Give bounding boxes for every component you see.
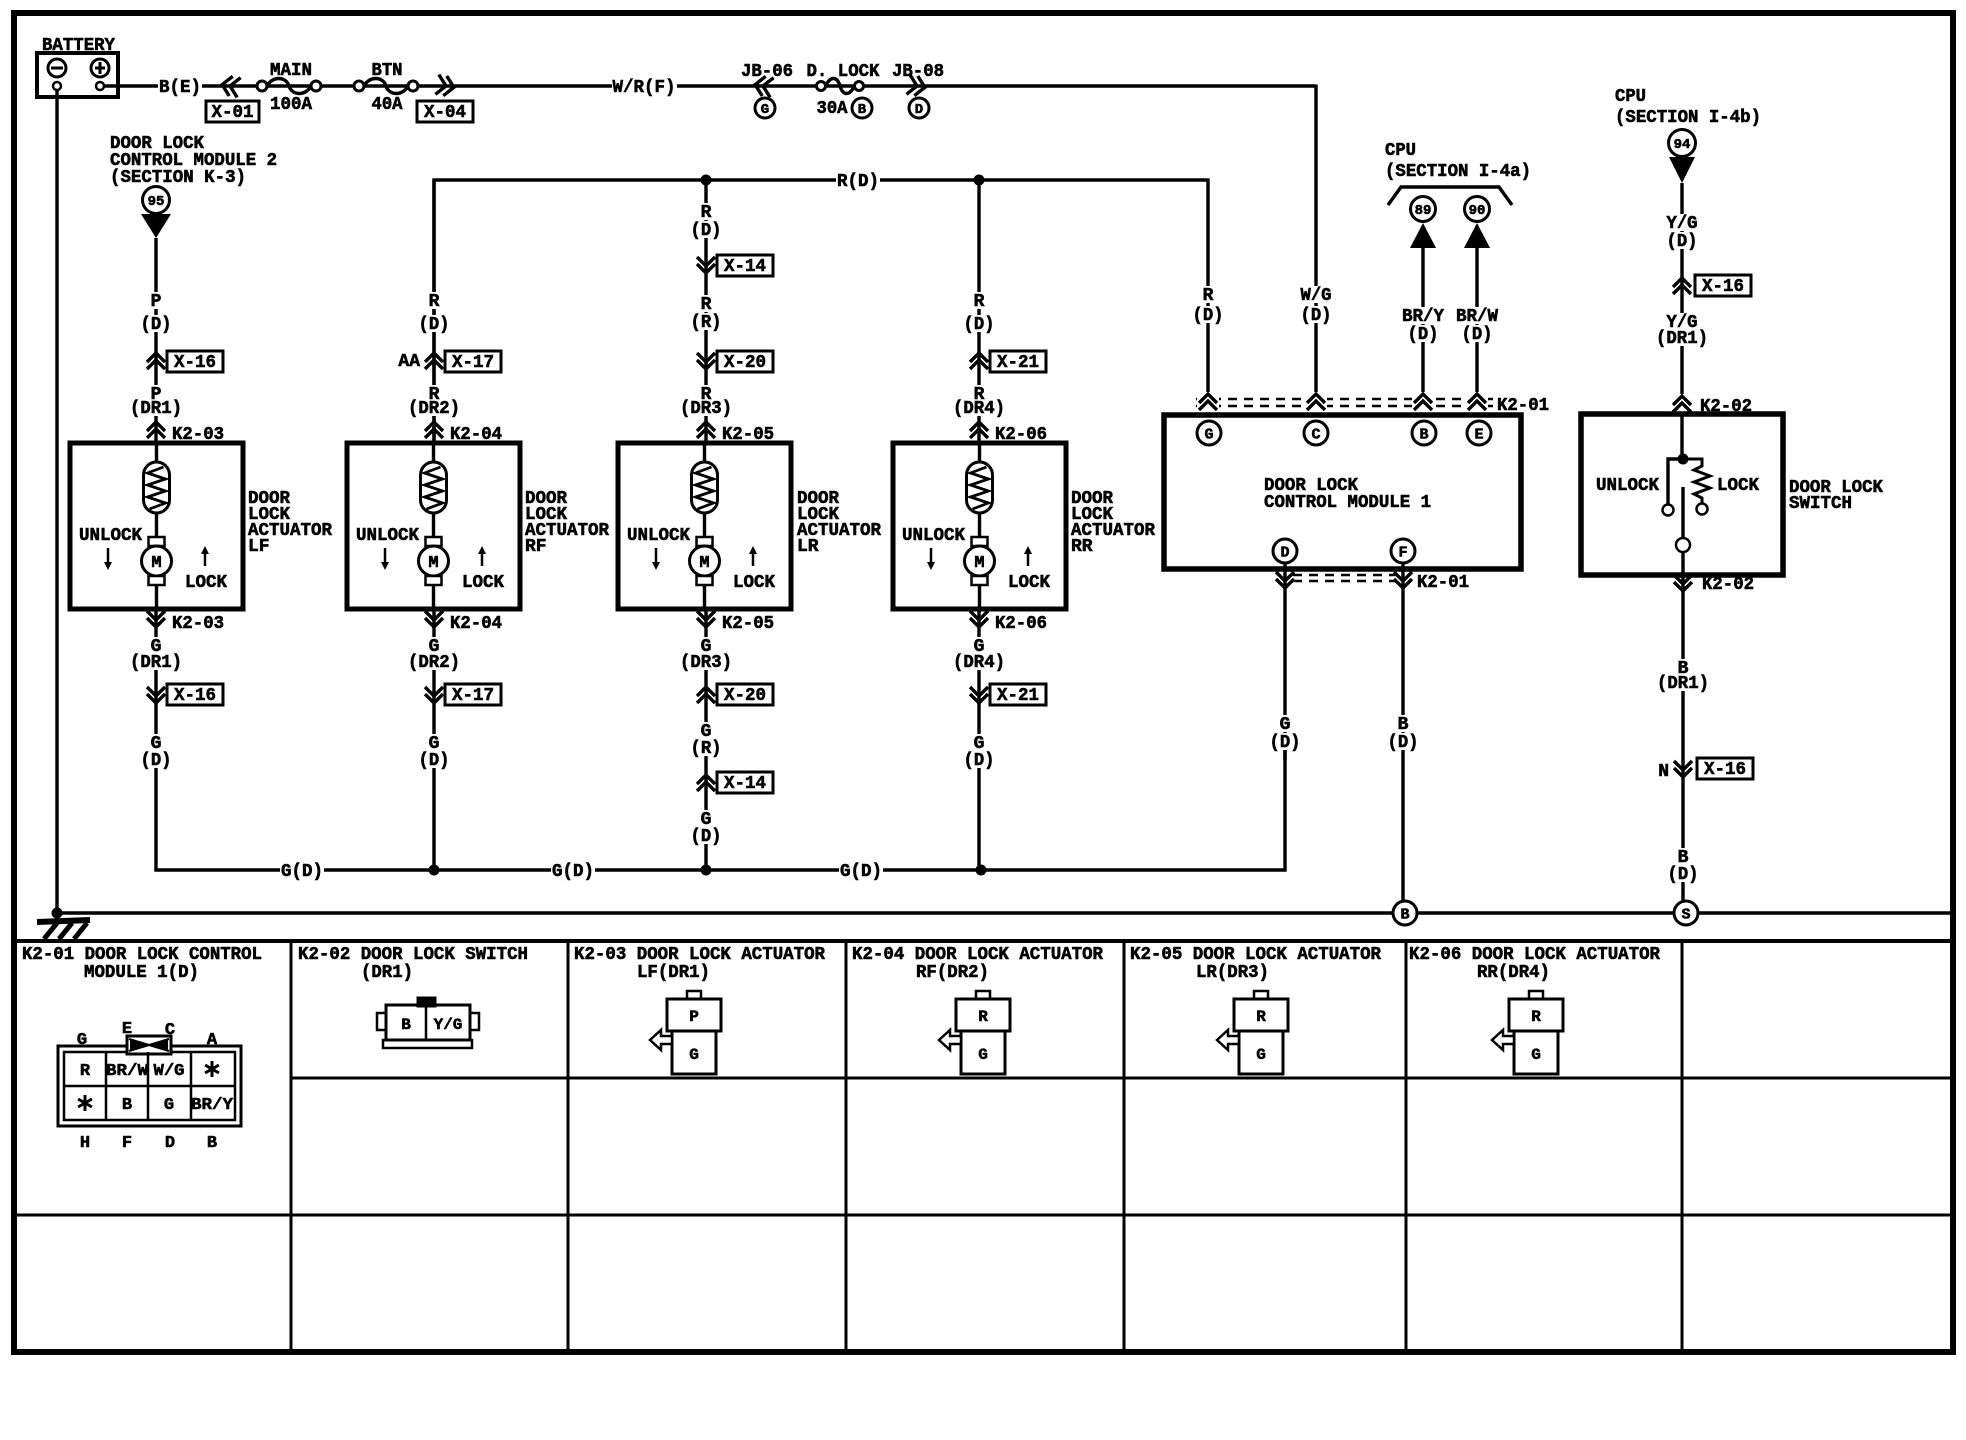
svg-text:X-21: X-21 [997, 686, 1039, 706]
connector K2-05 pinout glyph [1217, 991, 1288, 1074]
fuse D.LOCK 30A pin B [807, 62, 880, 119]
svg-text:LR: LR [797, 537, 819, 557]
svg-text:R: R [978, 1008, 988, 1026]
door lock switch [1581, 414, 1783, 575]
svg-text:(D): (D) [141, 315, 172, 335]
svg-text:P: P [689, 1008, 699, 1026]
svg-text:30A: 30A [817, 99, 848, 119]
svg-text:UNLOCK: UNLOCK [627, 526, 690, 546]
svg-text:X-21: X-21 [997, 353, 1039, 373]
svg-text:K2-02 DOOR LOCK SWITCH: K2-02 DOOR LOCK SWITCH [298, 945, 528, 965]
svg-text:D: D [915, 102, 923, 118]
svg-text:B(E): B(E) [159, 78, 201, 98]
door lock actuator RR [893, 443, 1066, 609]
svg-text:B: B [207, 1134, 217, 1153]
svg-text:P: P [151, 292, 162, 312]
svg-text:G: G [978, 1046, 988, 1064]
svg-text:RR: RR [1071, 537, 1093, 557]
door lock actuator LF [70, 443, 243, 609]
wire R(D)/R(R)/R(DR3) to actuator LR [679, 180, 774, 445]
svg-text:SWITCH: SWITCH [1789, 494, 1852, 514]
svg-text:CPU: CPU [1615, 87, 1646, 107]
svg-text:(DR4): (DR4) [953, 653, 1005, 673]
wire G (D) module 1 pin D [1268, 563, 1301, 760]
svg-text:X-17: X-17 [452, 353, 494, 373]
svg-text:X-16: X-16 [1702, 277, 1744, 297]
wire BR/Y (D) to module 1 pin B [1401, 246, 1445, 421]
svg-text:R(D): R(D) [837, 172, 879, 192]
svg-text:B: B [1400, 906, 1409, 923]
svg-text:MAIN: MAIN [270, 61, 312, 81]
wire G(DR3)/G(R)/G(D) actuator LR to ground bus [679, 609, 774, 870]
svg-text:X-16: X-16 [174, 353, 216, 373]
wire B (DR1)/B (D) switch to ground bus [1656, 575, 1753, 901]
wire P(D)/P(DR1) module2 to actuator LF [129, 238, 224, 445]
svg-text:C: C [1311, 426, 1320, 443]
svg-text:H: H [80, 1134, 90, 1153]
svg-text:W/R(F): W/R(F) [613, 78, 676, 98]
wire BR/W (D) to module 1 pin E [1455, 246, 1499, 421]
svg-text:G(D): G(D) [840, 862, 882, 882]
svg-text:(DR1): (DR1) [361, 963, 413, 983]
svg-text:D: D [165, 1134, 175, 1153]
svg-text:95: 95 [148, 194, 165, 210]
svg-text:G: G [1204, 426, 1213, 443]
svg-text:100A: 100A [270, 95, 312, 115]
svg-text:S: S [1681, 906, 1690, 923]
svg-text:90: 90 [1469, 203, 1486, 219]
svg-text:K2-04: K2-04 [450, 614, 502, 634]
connector table grid [14, 941, 1953, 1352]
svg-text:G: G [1256, 1046, 1266, 1064]
svg-text:K2-03: K2-03 [172, 614, 224, 634]
svg-text:X-14: X-14 [724, 257, 766, 277]
svg-text:R: R [429, 292, 440, 312]
svg-text:G: G [689, 1046, 699, 1064]
battery [37, 36, 118, 97]
svg-text:(D): (D) [1668, 865, 1699, 885]
svg-text:BTN: BTN [372, 61, 403, 81]
svg-text:94: 94 [1674, 137, 1691, 153]
svg-text:LF(DR1): LF(DR1) [637, 963, 710, 983]
svg-text:F: F [1398, 544, 1407, 561]
svg-text:LR(DR3): LR(DR3) [1196, 963, 1269, 983]
wire B(E) [104, 78, 1316, 98]
svg-text:K2-04 DOOR LOCK ACTUATOR: K2-04 DOOR LOCK ACTUATOR [852, 945, 1103, 965]
svg-text:BR/Y: BR/Y [1402, 307, 1444, 327]
svg-text:X-20: X-20 [724, 686, 766, 706]
connector K2-03 pinout glyph [650, 991, 721, 1074]
svg-text:(DR1): (DR1) [130, 653, 182, 673]
svg-text:W/G: W/G [154, 1062, 185, 1081]
label door lock actuator RR [1071, 489, 1155, 557]
svg-text:(SECTION I-4b): (SECTION I-4b) [1615, 108, 1761, 128]
svg-text:89: 89 [1415, 203, 1432, 219]
svg-text:N: N [1658, 762, 1669, 782]
svg-text:X-17: X-17 [452, 686, 494, 706]
svg-text:(D): (D) [141, 751, 172, 771]
svg-text:(D): (D) [419, 751, 450, 771]
svg-text:R: R [1203, 286, 1214, 306]
svg-text:LOCK: LOCK [1008, 573, 1050, 593]
svg-text:X-16: X-16 [1704, 760, 1746, 780]
svg-text:40A: 40A [372, 95, 403, 115]
svg-text:G: G [1280, 715, 1291, 735]
svg-text:G: G [77, 1031, 87, 1050]
wire G(DR1)/G(D) actuator LF to ground bus [129, 609, 224, 870]
svg-text:(R): (R) [691, 313, 722, 333]
connector K2-01 top [1196, 392, 1549, 416]
svg-text:(D): (D) [1193, 306, 1224, 326]
svg-text:Y/G: Y/G [434, 1016, 463, 1034]
svg-text:RF(DR2): RF(DR2) [916, 963, 989, 983]
svg-text:(DR1): (DR1) [1657, 674, 1709, 694]
wire Y/G (D)/(DR1) CPU to door lock switch [1655, 183, 1751, 456]
svg-text:(DR2): (DR2) [408, 653, 460, 673]
svg-text:UNLOCK: UNLOCK [902, 526, 965, 546]
svg-text:CONTROL MODULE 1: CONTROL MODULE 1 [1264, 493, 1431, 513]
wire G(DR2)/G(D) actuator RF to ground bus [407, 609, 502, 870]
svg-text:(D): (D) [419, 315, 450, 335]
label door lock actuator RF [525, 489, 609, 557]
svg-text:LOCK: LOCK [185, 573, 227, 593]
svg-text:UNLOCK: UNLOCK [1596, 476, 1659, 496]
svg-text:K2-01 DOOR LOCK CONTROL: K2-01 DOOR LOCK CONTROL [22, 945, 262, 965]
svg-text:BR/W: BR/W [106, 1062, 149, 1081]
svg-text:AA: AA [398, 352, 420, 372]
svg-text:X-01: X-01 [212, 103, 254, 123]
svg-text:(D): (D) [691, 221, 722, 241]
svg-text:CPU: CPU [1385, 141, 1416, 161]
svg-text:MODULE 1(D): MODULE 1(D) [84, 963, 199, 983]
ground bus [52, 901, 1951, 925]
door lock control module 2 source arrow 95 [110, 134, 277, 238]
svg-text:(DR1): (DR1) [130, 399, 182, 419]
svg-text:D. LOCK: D. LOCK [807, 62, 880, 82]
svg-text:(D): (D) [1408, 325, 1439, 345]
svg-text:R: R [1531, 1008, 1541, 1026]
wire G(DR4)/G(D) actuator RR to ground bus [952, 609, 1047, 870]
svg-text:B: B [1419, 426, 1428, 443]
label door lock switch [1789, 478, 1883, 514]
door lock actuator RF [347, 443, 520, 609]
table headers [22, 945, 1660, 983]
svg-text:X-14: X-14 [724, 774, 766, 794]
label door lock actuator LF [248, 489, 332, 557]
junction block JB-08 pin D [892, 62, 944, 118]
svg-text:G: G [164, 1096, 174, 1115]
door lock control module 1 [1164, 415, 1521, 569]
svg-text:BR/W: BR/W [1456, 307, 1498, 327]
connector K2-01 bottom [1276, 572, 1469, 593]
svg-text:F: F [122, 1134, 132, 1153]
svg-text:B: B [858, 102, 867, 118]
svg-text:(DR2): (DR2) [408, 399, 460, 419]
connector K2-01 pinout glyph [58, 1020, 241, 1153]
label door lock actuator LR [797, 489, 881, 557]
svg-text:LOCK: LOCK [462, 573, 504, 593]
svg-text:(DR3): (DR3) [680, 653, 732, 673]
svg-text:BR/Y: BR/Y [191, 1096, 234, 1115]
svg-text:K2-02: K2-02 [1702, 575, 1754, 595]
svg-text:RF: RF [525, 537, 547, 557]
svg-text:JB-06: JB-06 [741, 62, 793, 82]
junction block JB-06 pin G [741, 62, 793, 118]
svg-text:(DR1): (DR1) [1656, 329, 1708, 349]
svg-text:(DR3): (DR3) [680, 399, 732, 419]
connector K2-02 bottom [1674, 575, 1754, 595]
svg-text:R: R [1256, 1008, 1266, 1026]
svg-text:M: M [151, 554, 161, 573]
svg-text:UNLOCK: UNLOCK [356, 526, 419, 546]
svg-text:(D): (D) [691, 827, 722, 847]
svg-text:K2-03 DOOR LOCK ACTUATOR: K2-03 DOOR LOCK ACTUATOR [574, 945, 825, 965]
connector K2-06 pinout glyph [1492, 991, 1563, 1074]
CPU (SECTION I-4b) arrow 94 [1615, 87, 1761, 183]
svg-text:(D): (D) [964, 751, 995, 771]
connector K2-02 top [1671, 394, 1752, 417]
wire battery negative to ground bus [55, 90, 58, 913]
ground symbol [37, 920, 90, 939]
svg-text:(SECTION I-4a): (SECTION I-4a) [1385, 162, 1531, 182]
svg-text:A: A [207, 1031, 218, 1050]
wire W/G (D) to module 1 pin C [1300, 85, 1333, 422]
svg-text:(D): (D) [964, 315, 995, 335]
svg-text:RR(DR4): RR(DR4) [1477, 963, 1550, 983]
svg-text:W/G: W/G [1301, 286, 1332, 306]
svg-text:R: R [701, 295, 712, 315]
wire R(D)/R(DR4) to actuator RR [952, 180, 1047, 445]
svg-text:E: E [122, 1020, 132, 1039]
CPU (SECTION I-4a) arrows 89/90 [1385, 141, 1531, 248]
wire R(D)/R(DR2) to actuator RF [398, 180, 502, 445]
connector K2-04 pinout glyph [939, 991, 1010, 1074]
svg-text:D: D [1280, 544, 1289, 561]
svg-text:K2-05: K2-05 [722, 614, 774, 634]
svg-text:(D): (D) [1270, 733, 1301, 753]
wire bus G(D) actuators to module 1 pin D [156, 750, 1285, 882]
connector K2-02 pinout glyph [377, 997, 479, 1048]
svg-text:K2-01: K2-01 [1417, 573, 1469, 593]
svg-text:UNLOCK: UNLOCK [79, 526, 142, 546]
svg-text:LOCK: LOCK [733, 573, 775, 593]
svg-text:(SECTION K-3): (SECTION K-3) [110, 168, 246, 188]
svg-text:M: M [974, 554, 984, 573]
svg-text:(D): (D) [1301, 306, 1332, 326]
svg-text:C: C [165, 1021, 175, 1040]
svg-text:R: R [701, 203, 712, 223]
svg-text:(D): (D) [1462, 325, 1493, 345]
svg-text:M: M [699, 554, 709, 573]
connector X-01 [206, 75, 259, 123]
svg-text:B: B [401, 1016, 411, 1034]
svg-text:R: R [974, 292, 985, 312]
svg-text:E: E [1474, 426, 1483, 443]
svg-text:(D): (D) [1388, 733, 1419, 753]
wire bus R(D) [434, 172, 1225, 443]
fuse MAIN 100A [257, 61, 321, 115]
connector X-04 [417, 75, 473, 123]
svg-text:(R): (R) [691, 739, 722, 759]
door lock actuator LR [618, 443, 791, 609]
svg-text:R: R [80, 1062, 91, 1081]
svg-text:B: B [122, 1096, 132, 1115]
svg-text:M: M [428, 554, 438, 573]
svg-text:G: G [761, 102, 769, 118]
svg-text:K2-06 DOOR LOCK ACTUATOR: K2-06 DOOR LOCK ACTUATOR [1409, 945, 1660, 965]
svg-text:(D): (D) [1667, 232, 1698, 252]
wire B (D) module 1 pin F to ground bus [1386, 563, 1419, 901]
svg-text:G: G [1531, 1046, 1541, 1064]
svg-text:Y/G: Y/G [1667, 214, 1698, 234]
svg-text:LF: LF [248, 537, 270, 557]
svg-text:G(D): G(D) [281, 862, 323, 882]
svg-text:K2-06: K2-06 [995, 614, 1047, 634]
fuse BTN 40A [354, 61, 418, 115]
svg-text:X-20: X-20 [724, 353, 766, 373]
svg-text:LOCK: LOCK [1717, 476, 1759, 496]
svg-text:X-16: X-16 [174, 686, 216, 706]
svg-text:(DR4): (DR4) [953, 399, 1005, 419]
svg-text:G(D): G(D) [552, 862, 594, 882]
svg-text:K2-05 DOOR LOCK ACTUATOR: K2-05 DOOR LOCK ACTUATOR [1130, 945, 1381, 965]
svg-text:B: B [1398, 715, 1409, 735]
svg-text:X-04: X-04 [424, 103, 466, 123]
